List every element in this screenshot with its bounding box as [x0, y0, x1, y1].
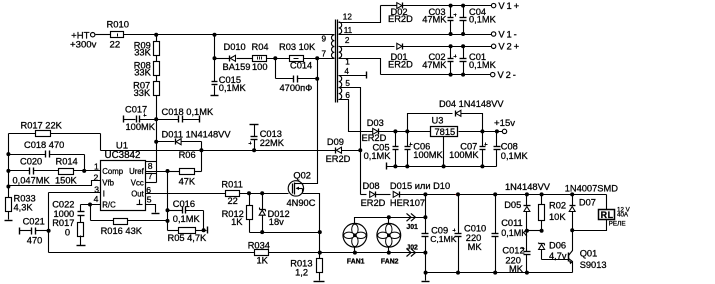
- fan FAN2 leads: [388, 218, 390, 224]
- svg-text:C021: C021: [23, 217, 45, 227]
- transistor Q02 4N90C MOSFET: [288, 181, 303, 196]
- capacitor C09 C,1MK line: [425, 195, 427, 234]
- svg-text:0,1MK: 0,1MK: [364, 151, 392, 161]
- capacitor C016 0,1MK: [168, 210, 183, 212]
- resistor R017 22K feedback: [9, 133, 101, 135]
- regulator U3 7815: [431, 127, 458, 137]
- svg-text:РЕЛЕ: РЕЛЕ: [609, 221, 626, 228]
- svg-text:J01: J01: [406, 224, 418, 231]
- diode D02 ER2D: [381, 5, 397, 7]
- capacitor C021 470: [19, 228, 21, 235]
- svg-text:2: 2: [345, 36, 350, 45]
- capacitor C06 100MK: [407, 132, 409, 147]
- svg-text:100MK: 100MK: [413, 150, 443, 160]
- svg-text:3: 3: [94, 184, 99, 194]
- wire 7815 gnd lead: [443, 137, 445, 167]
- junction C017/C018 on 33K chain: [154, 117, 158, 121]
- svg-text:C018 0,1MK: C018 0,1MK: [162, 107, 214, 117]
- diode D011 1N4148W: [154, 140, 158, 144]
- svg-text:R04: R04: [252, 42, 269, 52]
- svg-text:V1+: V1+: [498, 0, 521, 11]
- resistor R014 150K: [34, 170, 59, 172]
- junction Vcc rail / C013: [252, 148, 256, 152]
- resistor R02 10K: [541, 195, 543, 205]
- wire D010 branch vertical: [214, 35, 216, 59]
- wire comp row to pin 1: [74, 170, 101, 172]
- svg-text:Comp: Comp: [102, 167, 123, 176]
- terminal V2-: [491, 72, 495, 76]
- resistor R08 33K: [156, 56, 158, 63]
- svg-text:0,047MK: 0,047MK: [13, 176, 51, 186]
- junction D010 row / C015: [213, 56, 217, 60]
- wire pin 12: [339, 6, 381, 23]
- svg-text:22: 22: [228, 196, 238, 206]
- wire D010 to R04: [237, 58, 253, 60]
- wire R010 to transformer pin 9 (+HT rail): [124, 34, 335, 36]
- svg-text:1,2: 1,2: [295, 267, 308, 277]
- wire 12V rail: [399, 194, 456, 196]
- svg-text:HER107: HER107: [390, 198, 425, 208]
- left feedback rail: [8, 134, 10, 187]
- wire pin 6 Out to gate: [146, 193, 226, 195]
- svg-text:D03: D03: [367, 118, 384, 128]
- zener D012 18v: [262, 194, 264, 210]
- capacitor C05 0,1MK: [395, 132, 397, 147]
- svg-text:1N4007SMD: 1N4007SMD: [565, 184, 619, 194]
- wire Q02 drain to transformer: [304, 59, 318, 184]
- resistor R034 1K: [255, 250, 269, 256]
- zener D06 4,7v: [539, 243, 545, 245]
- capacitor C020 0,047MK: [9, 170, 30, 172]
- svg-text:7: 7: [148, 171, 153, 181]
- wire R07 chain down to pin7 of U1: [156, 96, 158, 183]
- transformer secondary winding 4-5-6: [339, 76, 342, 100]
- svg-text:ER2D: ER2D: [362, 133, 387, 143]
- svg-text:C018 470: C018 470: [24, 140, 64, 150]
- capacitor C018 0,1MK: [157, 119, 179, 121]
- terminal V2+: [491, 44, 495, 48]
- svg-text:33K: 33K: [134, 68, 151, 78]
- svg-text:C022: C022: [52, 199, 74, 209]
- junction C021 / pin3 wire: [47, 229, 51, 233]
- junction D09 / pin5 line: [358, 148, 362, 152]
- svg-text:D06: D06: [549, 241, 566, 251]
- pin tick marks pins 8/7: [145, 161, 157, 163]
- svg-text:V1-: V1-: [498, 28, 518, 39]
- wire pin 5 to ground bar: [146, 205, 156, 213]
- ground stub under C09: [424, 271, 428, 275]
- junction drain line / pin7 wire: [315, 56, 319, 60]
- wire 7815 ground bus: [386, 163, 388, 170]
- wire source bottom row: [250, 232, 320, 234]
- svg-text:470: 470: [27, 236, 43, 246]
- svg-text:D04 1N4148VV: D04 1N4148VV: [439, 99, 504, 109]
- capacitor C02 47MK: [449, 44, 453, 48]
- transistor Q01 S9013: [568, 253, 570, 262]
- svg-text:18v: 18v: [269, 217, 284, 227]
- resistor R033 4,3K to ground: [8, 187, 10, 198]
- capacitor C011 0,1MK: [495, 195, 497, 234]
- svg-text:40A: 40A: [617, 212, 629, 219]
- svg-text:4: 4: [94, 194, 99, 204]
- diode D05 1N4148W clamp: [526, 195, 528, 206]
- svg-text:FAN2: FAN2: [381, 258, 399, 265]
- svg-text:D010: D010: [224, 42, 246, 52]
- svg-text:+300v: +300v: [70, 40, 97, 51]
- relay RL 12V 40A: [606, 195, 608, 210]
- wire pin 3 current sense: [48, 193, 50, 253]
- svg-text:R017 22K: R017 22K: [21, 121, 63, 131]
- svg-text:R06: R06: [179, 150, 196, 160]
- capacitor C07 100MK: [482, 132, 484, 147]
- svg-text:0,1MK: 0,1MK: [469, 60, 497, 70]
- fan FAN1: [343, 223, 367, 247]
- wire V2- rail: [381, 74, 491, 76]
- svg-text:RL: RL: [601, 210, 614, 220]
- svg-text:Vfb: Vfb: [102, 179, 114, 188]
- svg-text:+15v: +15v: [494, 118, 515, 129]
- svg-text:4N90C: 4N90C: [287, 198, 316, 208]
- resistor R012 1K: [249, 194, 251, 206]
- svg-text:9: 9: [322, 34, 327, 43]
- svg-text:1K: 1K: [231, 217, 243, 227]
- capacitor C015 0,1MK: [214, 59, 216, 82]
- svg-text:C,1MK: C,1MK: [430, 234, 457, 244]
- svg-text:100: 100: [252, 62, 268, 72]
- resistor R09 33K: [156, 35, 158, 43]
- transformer secondary winding 2-1: [339, 46, 342, 58]
- svg-text:47MK: 47MK: [422, 60, 447, 70]
- junction C018-470 / comp row: [82, 169, 86, 173]
- resistor R04 100: [253, 56, 267, 62]
- resistor R016 43K: [90, 205, 92, 221]
- resistor R07 33K: [156, 76, 158, 83]
- wire D05 node to R02 node: [527, 230, 542, 232]
- resistor R05 4,7K: [168, 230, 179, 232]
- svg-text:47MK: 47MK: [422, 15, 447, 25]
- svg-text:7: 7: [322, 50, 327, 59]
- U1 pin5 internal gnd glyph: [139, 200, 141, 205]
- wire R011 to gate junctions: [240, 193, 289, 195]
- svg-text:R02: R02: [549, 201, 566, 211]
- svg-text:D011 1N4148VV: D011 1N4148VV: [162, 129, 232, 139]
- transformer primary winding 9-7: [331, 35, 334, 58]
- svg-text:Q02: Q02: [293, 170, 311, 180]
- terminal V1-: [491, 32, 495, 36]
- svg-text:R011: R011: [221, 180, 243, 190]
- svg-text:V2-: V2-: [498, 69, 518, 80]
- svg-text:7815: 7815: [435, 127, 456, 137]
- svg-text:FAN1: FAN1: [347, 258, 365, 265]
- svg-text:2: 2: [94, 173, 99, 183]
- wire pin 8 Uref: [146, 171, 168, 173]
- svg-text:UC3842: UC3842: [105, 150, 141, 161]
- svg-text:22MK: 22MK: [260, 138, 285, 148]
- svg-text:ER2D: ER2D: [326, 154, 351, 164]
- svg-text:C014: C014: [290, 61, 312, 71]
- svg-text:R017: R017: [52, 218, 74, 228]
- wire pin 2 V2+ start: [339, 46, 395, 48]
- capacitor C03 47MK: [449, 4, 453, 8]
- junction C014 / drain line: [315, 77, 319, 81]
- svg-text:C08: C08: [501, 141, 518, 151]
- junction dots V1- rail: [449, 32, 453, 36]
- wire secondary ground rail: [426, 272, 573, 274]
- capacitor C04 0,1MK: [461, 4, 465, 8]
- resistor R010 22: [111, 32, 124, 38]
- svg-text:Uref: Uref: [129, 167, 145, 176]
- diode D04 1N4148W bypass: [408, 114, 453, 132]
- svg-text:ER2D: ER2D: [361, 198, 386, 208]
- svg-text:4,3K: 4,3K: [14, 202, 34, 212]
- svg-text:ER2D: ER2D: [388, 59, 413, 69]
- svg-text:R010: R010: [107, 19, 129, 30]
- svg-text:33K: 33K: [134, 88, 151, 98]
- resistor R03 10K: [290, 56, 304, 62]
- wire pin 11 V1- rail: [339, 34, 492, 36]
- fan FAN1 bottom lead: [354, 248, 356, 253]
- svg-text:C017: C017: [125, 105, 147, 115]
- fan supply top wire J01: [355, 218, 426, 224]
- junction Vcc rail / D011-R06: [199, 148, 203, 152]
- svg-text:R/C: R/C: [102, 201, 116, 210]
- wire +15 rail: [379, 131, 431, 133]
- svg-text:R05 4,7K: R05 4,7K: [168, 233, 208, 243]
- svg-text:C016: C016: [173, 199, 195, 209]
- transformer T1 core: [335, 20, 337, 103]
- svg-text:100MK: 100MK: [126, 122, 156, 132]
- capacitor C014 4700pF snubber: [275, 59, 277, 79]
- svg-text:R016 43K: R016 43K: [101, 226, 143, 236]
- svg-text:0,1MK: 0,1MK: [173, 214, 201, 224]
- svg-text:0: 0: [65, 227, 70, 237]
- wire pin 5 to D09 junction: [339, 88, 361, 195]
- svg-text:8: 8: [148, 161, 153, 171]
- svg-text:4: 4: [344, 67, 349, 76]
- svg-text:U3: U3: [432, 115, 444, 125]
- svg-text:150K: 150K: [55, 176, 78, 186]
- wire pin 1: [339, 59, 381, 75]
- svg-text:Out: Out: [131, 190, 144, 199]
- svg-text:BA159: BA159: [223, 62, 251, 72]
- capacitor C012 220MK: [522, 248, 525, 250]
- resistor R013 1,2 current sense: [319, 253, 321, 259]
- diode D01 ER2D: [397, 43, 402, 49]
- diode D09 ER2D: [336, 147, 341, 153]
- svg-text:D08: D08: [363, 181, 380, 191]
- svg-text:C012: C012: [502, 246, 524, 256]
- terminal V1+: [491, 3, 495, 7]
- capacitor C013 22MK: [250, 124, 259, 126]
- wire R03 to pin7 junction: [304, 58, 335, 60]
- svg-text:D05: D05: [504, 200, 521, 210]
- capacitor C01 0,1MK: [461, 44, 465, 48]
- fan bottom wire J02: [355, 252, 426, 254]
- wire +HT to R010: [96, 34, 111, 36]
- junction +HT rail / D010 branch: [213, 33, 217, 37]
- svg-text:C020: C020: [20, 157, 42, 167]
- op-amp U1 UC3842 PWM controller box: [101, 161, 146, 211]
- svg-text:0,1MK: 0,1MK: [469, 15, 497, 25]
- svg-text:10K: 10K: [549, 212, 566, 222]
- connector J01 arrows: [407, 213, 412, 221]
- terminal +HT +300v input: [91, 33, 95, 37]
- svg-text:C010: C010: [464, 223, 486, 233]
- svg-text:Vcc: Vcc: [131, 179, 144, 188]
- junction +HT rail / R09 chain: [154, 33, 158, 37]
- svg-text:R034: R034: [248, 240, 270, 250]
- capacitor C018 470 feedback: [9, 154, 46, 156]
- wire bottom rail: [49, 252, 355, 254]
- red mark on rail: [456, 194, 459, 196]
- vertical Vref divider line: [167, 172, 169, 231]
- wire pin 6 to D03: [339, 100, 373, 132]
- wire Q02 source down: [303, 194, 320, 253]
- svg-text:22: 22: [110, 40, 121, 51]
- junction R04/R03/C014: [267, 58, 290, 60]
- svg-text:47K: 47K: [179, 177, 196, 187]
- svg-text:Q01: Q01: [580, 248, 598, 258]
- terminal +15v: [502, 129, 506, 133]
- svg-text:5: 5: [345, 79, 350, 88]
- svg-text:D07: D07: [579, 197, 596, 207]
- svg-text:5: 5: [147, 195, 152, 205]
- svg-text:0,1MK: 0,1MK: [501, 228, 527, 238]
- svg-text:D09: D09: [327, 137, 344, 147]
- svg-text:S9013: S9013: [580, 260, 607, 270]
- wire pin 4 R/C: [81, 204, 101, 206]
- svg-text:1: 1: [94, 161, 99, 171]
- connector J02 arrows: [407, 249, 412, 257]
- svg-text:MK: MK: [468, 242, 483, 252]
- svg-text:I: I: [103, 190, 105, 199]
- svg-text:J02: J02: [406, 245, 418, 252]
- capacitor C022 1000: [80, 205, 82, 212]
- svg-text:12: 12: [343, 13, 353, 22]
- fan FAN2: [377, 223, 401, 247]
- wire pin2 Vfb: [9, 181, 101, 186]
- capacitor C08 0,1MK: [496, 132, 498, 147]
- svg-text:D015 или D10: D015 или D10: [390, 181, 450, 191]
- svg-text:1N4148VV: 1N4148VV: [505, 182, 551, 192]
- capacitor C010 220MK: [458, 195, 460, 234]
- svg-text:33K: 33K: [134, 48, 151, 58]
- svg-text:R014: R014: [56, 157, 78, 167]
- svg-text:0,1MK: 0,1MK: [219, 83, 247, 93]
- resistor R011 22: [226, 191, 240, 197]
- wire pin 4 stub terminator: [339, 75, 367, 77]
- diode D07 1N4007SMD: [572, 195, 574, 206]
- svg-text:11: 11: [344, 26, 353, 35]
- wire Vcc rail from R017 elbow to D09: [101, 150, 336, 152]
- diode D03 ER2D: [373, 128, 378, 134]
- svg-text:R03 10K: R03 10K: [279, 42, 316, 52]
- svg-text:0,1MK: 0,1MK: [501, 151, 529, 161]
- svg-text:1K: 1K: [257, 256, 269, 266]
- svg-text:C011: C011: [501, 218, 523, 228]
- resistor R06 47K: [168, 171, 180, 173]
- svg-text:100MK: 100MK: [449, 150, 479, 160]
- diode D015 HER107: [376, 194, 391, 196]
- diode D010 BA159: [215, 58, 230, 60]
- svg-text:4700пФ: 4700пФ: [280, 83, 313, 93]
- diode D08 ER2D: [361, 194, 367, 196]
- svg-text:ER2D: ER2D: [388, 14, 413, 24]
- capacitor C017 100MK: [123, 116, 125, 123]
- resistor R017 0: [80, 216, 82, 223]
- svg-text:6: 6: [345, 91, 350, 100]
- transformer secondary winding 12-11: [339, 22, 342, 34]
- svg-text:V2+: V2+: [498, 41, 521, 52]
